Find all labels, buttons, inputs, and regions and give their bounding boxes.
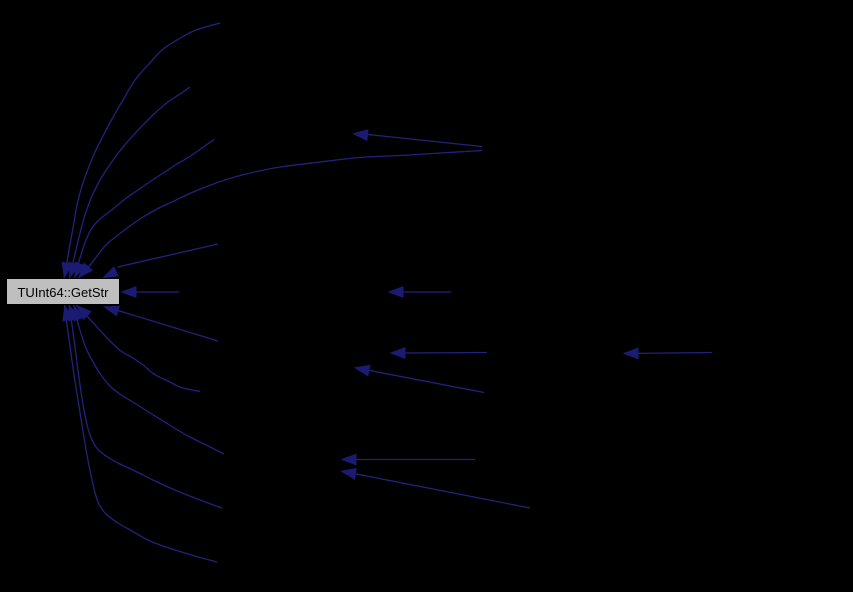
wire caller-curve D — [78, 151, 482, 279]
wire caller-curve I — [73, 305, 224, 455]
wire arrow E — [102, 244, 218, 278]
wire arrow F — [121, 286, 180, 298]
wire caller-curve J — [68, 305, 222, 509]
wire arrow O — [354, 365, 484, 393]
wire caller-curve C — [75, 140, 214, 279]
wire caller-curve A — [62, 23, 221, 279]
wire caller-curve B — [68, 87, 190, 279]
node TUInt64::GetStr — [7, 279, 120, 305]
svg-text:TUInt64::GetStr: TUInt64::GetStr — [17, 285, 109, 300]
wire caller-curve K — [62, 305, 217, 563]
wire arrow L — [352, 129, 482, 146]
wire arrow P — [341, 454, 476, 466]
wire arrow R — [623, 347, 713, 359]
wire arrow Q — [340, 468, 530, 508]
wire caller-curve H — [76, 305, 200, 392]
wire arrow M — [388, 286, 452, 298]
wire arrow G — [103, 306, 218, 341]
wire arrow N — [390, 347, 488, 359]
